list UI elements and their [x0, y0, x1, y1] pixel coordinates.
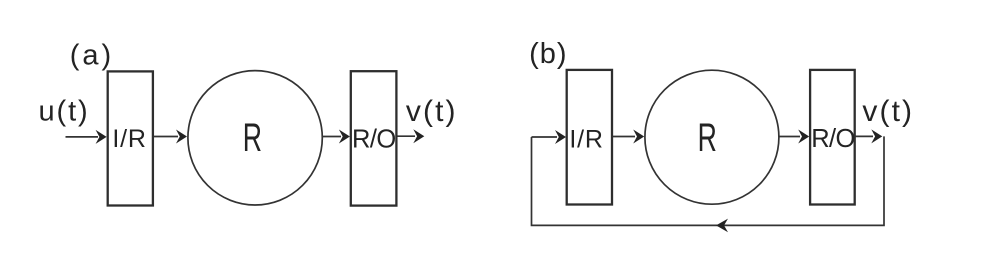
svg-text:R: R — [243, 117, 262, 160]
svg-text:v(t): v(t) — [406, 95, 458, 128]
svg-text:u(t): u(t) — [39, 95, 90, 127]
svg-text:I/R: I/R — [112, 125, 146, 153]
svg-text:(b): (b) — [529, 38, 567, 70]
svg-text:R/O: R/O — [811, 125, 855, 153]
svg-text:I/R: I/R — [569, 125, 603, 153]
svg-text:(a): (a) — [70, 40, 114, 72]
svg-text:R/O: R/O — [352, 126, 396, 154]
svg-text:v(t): v(t) — [862, 95, 914, 128]
svg-text:R: R — [698, 117, 717, 160]
